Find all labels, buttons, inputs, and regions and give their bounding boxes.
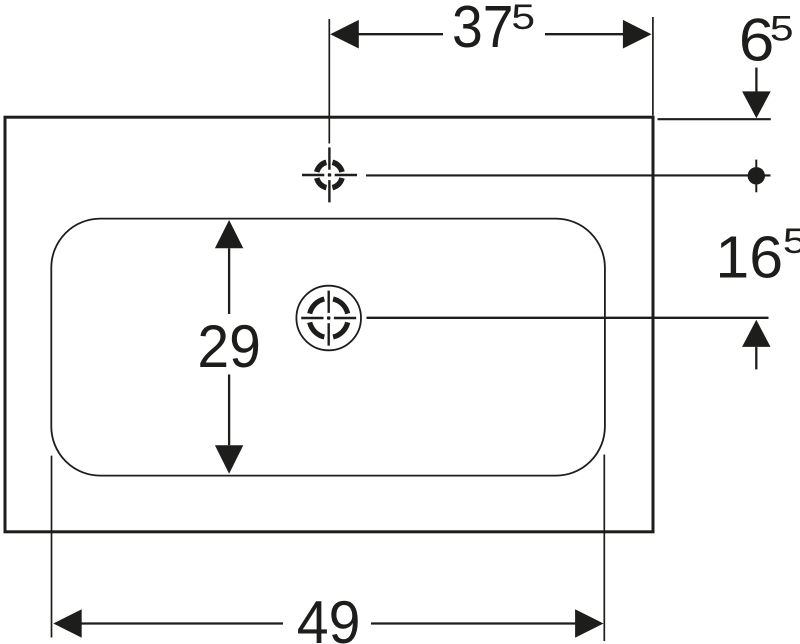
tap hole symbol (302, 147, 357, 202)
dimension 49 extension line left (51, 456, 53, 638)
dimension 16.5 arrow stem (755, 347, 757, 370)
tap hole leader line (366, 174, 771, 176)
dimension 37.5 extension line (right edge) (652, 17, 654, 116)
dimension 29 bottom arrowhead (215, 445, 243, 473)
dimension 49 extension line right (603, 455, 605, 642)
drain hole symbol (296, 286, 361, 351)
top edge extension line right (658, 118, 771, 120)
dimension 37.5 right arrowhead (623, 20, 652, 49)
dimension 6.5 arrow stem (755, 68, 757, 92)
dimension 37.5 line left segment (358, 33, 443, 35)
dimension 37.5 extension line (tap) (328, 19, 330, 144)
washbasin outer edge (5, 117, 653, 532)
dimension 49 right arrowhead (575, 609, 603, 637)
drain leader line (367, 317, 769, 319)
reference dot vertical tick (755, 160, 757, 193)
dimension 29 upper stem (228, 248, 230, 314)
dimension 16.5 arrowhead (742, 320, 770, 347)
dimension 29 lower stem (228, 375, 230, 446)
svg-text:5: 5 (783, 222, 800, 261)
basin bowl outline (51, 219, 605, 476)
dimension 6.5 arrowhead (742, 91, 771, 118)
reference point dot (748, 167, 765, 184)
svg-text:5: 5 (770, 10, 794, 49)
svg-text:16: 16 (715, 225, 783, 291)
dimension 29 top arrowhead (215, 220, 243, 248)
dimension 49 line left segment (81, 622, 283, 624)
dimension 37.5 line right segment (545, 33, 624, 35)
svg-text:37: 37 (452, 0, 514, 60)
dimension 37.5 left arrowhead (330, 20, 359, 49)
dimension 49 left arrowhead (53, 609, 81, 637)
dimension 49 line right segment (371, 622, 576, 624)
svg-text:5: 5 (511, 0, 535, 37)
svg-text:49: 49 (297, 589, 361, 644)
svg-text:29: 29 (197, 313, 261, 380)
